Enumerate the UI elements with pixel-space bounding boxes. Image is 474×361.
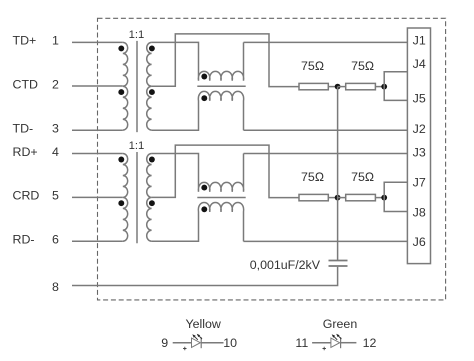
choke L1 winding B dot — [201, 95, 207, 101]
svg-text:3: 3 — [52, 122, 59, 136]
transformer T1 secondary dot (center) — [149, 89, 155, 95]
resistor R4 — [346, 194, 376, 200]
wire LED D2 cathode to pin 12 — [341, 342, 357, 344]
wire secondary center tap feed — [152, 34, 299, 87]
svg-text:75Ω: 75Ω — [351, 170, 374, 184]
svg-text:TD+: TD+ — [13, 34, 37, 48]
svg-text:CTD: CTD — [13, 77, 39, 91]
wire pin 3 lead — [72, 129, 123, 131]
wire pin 1 lead — [72, 41, 123, 43]
transformer T2 secondary winding — [147, 154, 152, 242]
LED D1 emission arrows — [195, 337, 198, 340]
svg-text:75Ω: 75Ω — [301, 170, 324, 184]
LED D2 triangle — [331, 338, 340, 347]
choke L2 winding B dot — [201, 206, 207, 212]
transformer T1 primary winding — [123, 42, 128, 130]
node junction dot (J7/J8) — [381, 195, 387, 201]
svg-text:1: 1 — [52, 34, 59, 48]
connector J box — [407, 28, 430, 264]
svg-text:J2: J2 — [413, 122, 426, 136]
wire secondary bottom to choke L1 + winding B — [152, 91, 244, 130]
svg-text:J7: J7 — [413, 175, 426, 189]
svg-text:J4: J4 — [413, 57, 426, 71]
wire secondary bottom to choke L2 + winding B — [152, 203, 244, 242]
wire choke L1 to J2 — [244, 129, 408, 131]
wire R1 to node — [328, 86, 337, 88]
transformer T1 core — [136, 41, 138, 132]
transformer T2 secondary dot (center) — [149, 200, 155, 206]
svg-text:Green: Green — [323, 317, 358, 331]
wire termination nodes to capacitor C1 — [337, 87, 339, 261]
svg-text:4: 4 — [52, 145, 59, 159]
svg-text:0,001uF/2kV: 0,001uF/2kV — [250, 258, 321, 272]
wire pin 11 to LED D2 anode — [312, 342, 331, 344]
module outline (dashed boundary) — [98, 18, 446, 300]
transformer T2 secondary dot (top) — [149, 157, 155, 163]
LED D1 cathode bar — [200, 337, 202, 348]
choke L1 winding A dot — [201, 74, 207, 80]
transformer T2 core — [136, 152, 138, 243]
wire pin 2 lead — [72, 85, 123, 87]
node junction dot — [335, 195, 341, 201]
resistor R1 — [299, 83, 328, 89]
wire secondary top to choke L2 — [152, 154, 244, 192]
LED D2 polarity + mark — [323, 347, 326, 350]
wire pin 6 lead — [72, 240, 123, 242]
resistor R3 — [299, 194, 328, 200]
choke L2 winding A dot — [201, 185, 207, 191]
wire pin 5 lead — [72, 196, 123, 198]
svg-text:TD-: TD- — [13, 122, 34, 136]
wire secondary top to choke L1 — [152, 42, 244, 80]
wire pin 9 to LED D1 anode — [173, 342, 192, 344]
LED D2 cathode bar — [340, 337, 342, 348]
wire choke L2 to J3 — [244, 153, 408, 155]
svg-text:1:1: 1:1 — [129, 29, 145, 41]
svg-text:RD+: RD+ — [13, 145, 38, 159]
wire choke L2 to J6 — [244, 240, 408, 242]
svg-text:CRD: CRD — [13, 189, 40, 203]
svg-text:Yellow: Yellow — [186, 317, 221, 331]
svg-text:12: 12 — [363, 336, 377, 350]
wire LED D1 cathode to pin 10 — [201, 342, 223, 344]
svg-text:75Ω: 75Ω — [351, 59, 374, 73]
wire bracket to J7/J8 — [384, 182, 407, 211]
wire node to R2 — [338, 86, 346, 88]
svg-text:J5: J5 — [413, 91, 426, 105]
svg-text:10: 10 — [223, 336, 237, 350]
svg-text:J3: J3 — [413, 145, 426, 159]
svg-text:J8: J8 — [413, 205, 426, 219]
choke L1 core — [197, 85, 245, 87]
transformer T2 primary dot (pin top) — [118, 157, 124, 163]
transformer T1 secondary dot (top) — [149, 45, 155, 51]
node junction dot — [335, 84, 341, 90]
wire R4 to node — [375, 197, 384, 199]
svg-text:9: 9 — [161, 336, 168, 350]
svg-text:J6: J6 — [413, 235, 426, 249]
transformer T2 primary winding — [123, 154, 128, 242]
node junction dot (J4/J5) — [381, 84, 387, 90]
wire bracket to J4/J5 — [384, 72, 407, 101]
svg-text:8: 8 — [52, 280, 59, 294]
svg-text:75Ω: 75Ω — [301, 59, 324, 73]
svg-text:J1: J1 — [413, 34, 426, 48]
LED D1 triangle — [192, 338, 201, 347]
svg-text:6: 6 — [52, 233, 59, 247]
wire node to R4 — [338, 197, 346, 199]
choke L2 core — [197, 197, 245, 199]
wire R2 to node — [375, 86, 384, 88]
svg-text:RD-: RD- — [13, 233, 35, 247]
svg-text:2: 2 — [52, 77, 59, 91]
svg-text:11: 11 — [295, 336, 308, 350]
wire pin 4 lead — [72, 153, 123, 155]
wire secondary center tap feed — [152, 145, 299, 198]
wire capacitor C1 to pin 8 — [72, 267, 338, 286]
LED D1 polarity + mark — [183, 347, 186, 350]
svg-text:5: 5 — [52, 189, 59, 203]
capacitor C1 — [329, 260, 348, 262]
transformer T2 primary dot (center) — [118, 200, 124, 206]
wire choke L1 to J1 — [244, 41, 408, 43]
transformer T1 secondary winding — [147, 42, 152, 130]
resistor R2 — [346, 83, 376, 89]
transformer T1 primary dot (center) — [118, 89, 124, 95]
LED D2 emission arrows — [334, 337, 337, 340]
transformer T1 primary dot (pin top) — [118, 45, 124, 51]
svg-text:1:1: 1:1 — [129, 140, 145, 152]
wire R3 to node — [328, 197, 337, 199]
